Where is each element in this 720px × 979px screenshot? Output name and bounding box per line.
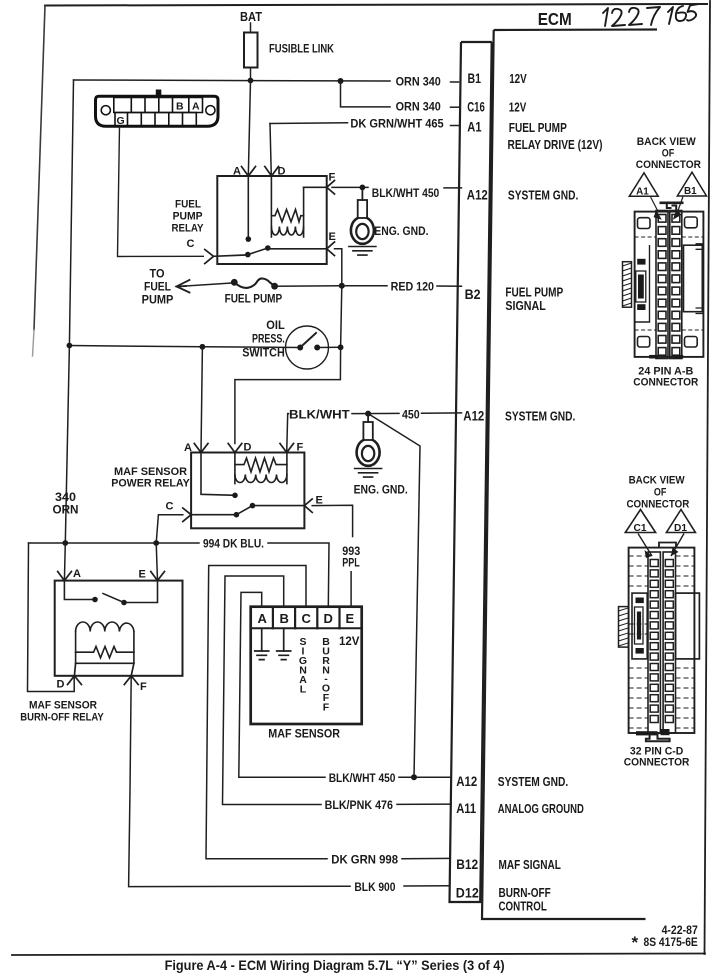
- svg-text:ECM: ECM: [538, 9, 572, 29]
- arrow to fuel pump: [177, 280, 190, 293]
- svg-text:POWER RELAY: POWER RELAY: [111, 478, 190, 490]
- svg-text:BAT: BAT: [240, 10, 262, 24]
- label RED 120: [391, 279, 435, 293]
- oil pressure switch S1: [286, 326, 329, 369]
- label BLK/WHT 450 (A12 top): [372, 186, 440, 200]
- wire A1 row down to terminal D: [270, 124, 271, 177]
- pin D12: [456, 885, 479, 901]
- node junction eng gnd 1: [360, 185, 366, 191]
- border frame left: [33, 6, 46, 357]
- svg-text:DK GRN 998: DK GRN 998: [331, 852, 398, 866]
- node junction 340 ORN / 994 line: [62, 540, 68, 546]
- MAF sensor internal ground B: [277, 628, 291, 659]
- terminal F (MAF power relay): [280, 442, 304, 454]
- svg-text:F: F: [140, 681, 147, 693]
- svg-text:D: D: [57, 679, 65, 691]
- svg-text:PUMP: PUMP: [173, 211, 203, 223]
- terminal E (MAF power relay): [304, 495, 322, 513]
- wire RED 120 row to B2: [275, 285, 462, 287]
- fuel pump inline connector symbol: [231, 278, 278, 289]
- svg-text:D12: D12: [456, 885, 479, 901]
- svg-text:A: A: [73, 568, 81, 580]
- wire MAF B to A11 row: [223, 576, 451, 805]
- pin A1: [467, 119, 481, 135]
- label ENG. GND. 2: [354, 483, 408, 497]
- svg-text:CONNECTOR: CONNECTOR: [633, 376, 698, 388]
- terminal F (fuel pump relay): [304, 172, 336, 195]
- svg-text:ENG. GND.: ENG. GND.: [354, 483, 408, 497]
- svg-text:A: A: [184, 442, 192, 454]
- terminal D (fuel pump relay): [265, 166, 286, 178]
- pin B1: [468, 70, 482, 86]
- handwritten number 1227 165: [603, 4, 699, 26]
- svg-text:RELAY DRIVE (12V): RELAY DRIVE (12V): [508, 137, 603, 152]
- signal BURN-OFF CONTROL: [499, 885, 551, 914]
- svg-text:SYSTEM GND.: SYSTEM GND.: [505, 409, 575, 424]
- wire BLK/WHT 450 row (A12 mid): [288, 412, 462, 415]
- signal 12V (B1): [509, 71, 527, 86]
- pin B12: [456, 856, 478, 872]
- svg-text:F: F: [297, 442, 304, 454]
- wire MAF A to A12 bottom row: [239, 592, 451, 777]
- label SIGNAL vertical: [299, 636, 307, 696]
- wire MAF relay A from OPS row: [201, 347, 202, 453]
- wire F to BLK/WHT 450 A12 row: [332, 186, 462, 189]
- node junction 340 ORN / OPS row: [67, 343, 73, 349]
- svg-text:E: E: [316, 495, 323, 507]
- svg-text:BLK/PNK 476: BLK/PNK 476: [325, 798, 394, 812]
- ECM title: [538, 9, 572, 29]
- label 993 PPL: [342, 546, 360, 570]
- relay K1 coil with resistor: [271, 176, 303, 237]
- svg-text:BLK/WHT 450: BLK/WHT 450: [372, 186, 440, 200]
- ECM box outline (top line and left/bottom edges): [482, 30, 657, 920]
- pin A12 (system gnd mid): [463, 408, 484, 424]
- svg-text:CONNECTOR: CONNECTOR: [624, 756, 690, 768]
- svg-text:B2: B2: [465, 286, 481, 302]
- wire fusible link to B1 row: [250, 68, 252, 81]
- svg-text:12V: 12V: [509, 71, 527, 86]
- label BLK 900: [354, 880, 395, 894]
- signal SYSTEM GND (A12 bottom): [498, 774, 568, 789]
- wire F up to BLK/WHT 450 row: [287, 414, 288, 453]
- border frame right: [705, 1, 711, 954]
- svg-text:ANALOG GROUND: ANALOG GROUND: [498, 801, 584, 816]
- svg-text:ORN 340: ORN 340: [396, 100, 441, 114]
- wire burn-off relay E drop: [156, 543, 157, 581]
- svg-text:OF: OF: [662, 148, 675, 160]
- svg-text:E: E: [139, 569, 146, 581]
- svg-text:CONNECTOR: CONNECTOR: [627, 499, 690, 511]
- svg-text:OIL: OIL: [266, 320, 285, 332]
- svg-text:PUMP: PUMP: [142, 295, 174, 307]
- doc number 8S 4175-6E with star: [632, 933, 699, 952]
- 32 pin C-D connector back view: [619, 475, 700, 769]
- wire DK GRN/WHT 465 row A1: [270, 123, 459, 126]
- svg-text:FUEL PUMP: FUEL PUMP: [509, 120, 567, 135]
- signal 12V (C16): [509, 100, 527, 115]
- terminal D (MAF power relay): [228, 442, 251, 454]
- node junction OPS right: [338, 344, 344, 350]
- svg-text:4-22-87: 4-22-87: [662, 925, 698, 937]
- MAF sensor box: [251, 607, 362, 724]
- wire MAF C signal to B12 row: [206, 566, 450, 859]
- signal SYSTEM GND (A12 mid): [505, 409, 575, 424]
- node junction C16 branch: [338, 78, 344, 84]
- svg-text:D1: D1: [674, 523, 687, 534]
- wire system ground bus diagonal down: [368, 414, 420, 778]
- svg-text:PRESS.: PRESS.: [252, 334, 285, 346]
- svg-text:MAF SENSOR: MAF SENSOR: [268, 727, 340, 741]
- wire ORN 340 row B1: [74, 80, 459, 82]
- svg-text:BACK VIEW: BACK VIEW: [637, 136, 697, 148]
- wire BAT to fusible link: [250, 23, 252, 33]
- terminal F (burn-off relay): [124, 663, 147, 693]
- MAF sensor terminal cells A B C D E: [251, 607, 362, 629]
- label FUSIBLE LINK: [269, 44, 335, 56]
- svg-text:ORN: ORN: [53, 505, 79, 517]
- wire C out to 994 line: [156, 515, 183, 543]
- BAT label: [240, 10, 262, 24]
- svg-text:FUEL PUMP: FUEL PUMP: [225, 294, 283, 306]
- svg-text:MAF SIGNAL: MAF SIGNAL: [499, 857, 561, 872]
- wire 994 DK BLU horizontal: [29, 543, 330, 607]
- svg-text:12V: 12V: [509, 100, 527, 115]
- label BLK/WHT (A12 mid): [289, 407, 350, 421]
- svg-text:BLK 900: BLK 900: [354, 880, 395, 894]
- svg-text:CONNECTOR: CONNECTOR: [636, 159, 701, 171]
- MAF sensor burn-off relay K3 box: [55, 581, 183, 676]
- relay K3 internal switch: [64, 581, 157, 606]
- wire oil pressure switch row: [69, 346, 340, 348]
- svg-text:A: A: [192, 101, 200, 113]
- pin A11: [456, 800, 476, 816]
- svg-text:B: B: [176, 101, 184, 113]
- svg-text:MAF SENSOR: MAF SENSOR: [114, 466, 187, 478]
- svg-text:RED 120: RED 120: [391, 279, 435, 293]
- wire C16 branch vertical: [341, 81, 459, 107]
- svg-text:D: D: [278, 166, 286, 178]
- label ORN 340 (B1): [396, 74, 441, 88]
- label BLK/PNK 476: [325, 798, 394, 812]
- label TO FUEL PUMP with arrow: [142, 269, 174, 307]
- svg-text:BACK VIEW: BACK VIEW: [629, 475, 686, 487]
- relay K2 internal switch: [201, 453, 304, 518]
- svg-text:B: B: [280, 611, 289, 626]
- signal SYSTEM GND (A12 top): [508, 188, 578, 203]
- wire E down to fuel pump / oil press switch junctions: [235, 249, 342, 444]
- label FUEL PUMP: [225, 294, 283, 306]
- label 340 ORN: [53, 492, 79, 517]
- svg-text:DK GRN/WHT 465: DK GRN/WHT 465: [350, 116, 444, 130]
- wire G terminal down to fuel pump relay C: [118, 126, 205, 256]
- node junction relay C / 994 line: [153, 540, 159, 546]
- terminal D (burn-off relay): [57, 663, 82, 690]
- svg-text:BLK/WHT 450: BLK/WHT 450: [329, 771, 396, 785]
- MAF sensor power relay K2 box: [191, 453, 304, 529]
- label MAF SENSOR BURN-OFF RELAY: [20, 700, 104, 724]
- node junction RED 120: [339, 283, 345, 289]
- cell letters: [258, 611, 355, 626]
- terminal A (MAF power relay): [184, 442, 208, 454]
- svg-text:FUEL: FUEL: [144, 282, 171, 294]
- svg-text:E: E: [329, 231, 336, 243]
- terminal E (fuel pump relay): [327, 231, 336, 256]
- signal FUEL PUMP SIGNAL: [505, 285, 563, 314]
- svg-text:993: 993: [342, 546, 360, 558]
- terminal C (fuel pump relay): [187, 238, 248, 264]
- doc number 4-22-87: [662, 925, 698, 937]
- pin A12 (system gnd top): [467, 187, 488, 203]
- svg-text:Figure A-4 - ECM Wiring Diagra: Figure A-4 - ECM Wiring Diagram 5.7L “Y”…: [165, 958, 505, 973]
- svg-text:994 DK BLU.: 994 DK BLU.: [203, 537, 264, 551]
- ECM pin strip rectangle: [450, 42, 492, 902]
- svg-text:E: E: [346, 611, 355, 626]
- ground eyelet ENG GND 1: [349, 190, 376, 255]
- node junction MAF relay A branch: [200, 344, 206, 350]
- svg-text:A12: A12: [463, 408, 484, 424]
- label ENG. GND. 1: [374, 224, 428, 238]
- svg-text:C1: C1: [634, 523, 647, 534]
- connector C100 bulkhead block: [96, 90, 219, 128]
- svg-text:SYSTEM GND.: SYSTEM GND.: [508, 188, 578, 203]
- node junction ground bus / A12 bottom row: [411, 774, 417, 780]
- svg-text:G: G: [117, 115, 125, 127]
- svg-text:C: C: [166, 501, 174, 513]
- label ORN 340 (C16): [396, 100, 441, 114]
- svg-text:CONTROL: CONTROL: [499, 899, 547, 914]
- node junction fusible link / B1 row: [248, 78, 254, 84]
- label DK GRN/WHT 465: [350, 116, 444, 130]
- svg-text:OF: OF: [654, 486, 667, 498]
- svg-text:L: L: [300, 684, 307, 696]
- label MAF SENSOR: [268, 727, 340, 741]
- svg-text:A1: A1: [467, 119, 481, 135]
- svg-text:F: F: [329, 172, 336, 184]
- svg-text:340: 340: [55, 492, 76, 504]
- svg-text:ENG. GND.: ENG. GND.: [374, 224, 428, 238]
- wire F down to BLK 900 row: [129, 677, 450, 887]
- wire burn-off relay A drop: [63, 543, 66, 581]
- relay K3 coil with resistor: [76, 622, 134, 663]
- terminal E (burn-off relay): [139, 569, 165, 581]
- svg-text:450: 450: [402, 407, 420, 421]
- wire arrow to pump symbol: [186, 283, 231, 286]
- svg-text:SYSTEM GND.: SYSTEM GND.: [498, 774, 568, 789]
- svg-text:8S 4175-6E: 8S 4175-6E: [644, 937, 699, 949]
- label FUEL PUMP RELAY: [172, 199, 205, 235]
- svg-text:A12: A12: [456, 773, 477, 789]
- svg-text:B1: B1: [468, 70, 482, 86]
- svg-text:B1: B1: [684, 186, 697, 197]
- svg-text:C: C: [302, 611, 312, 626]
- svg-text:F: F: [323, 702, 330, 714]
- terminal A (burn-off relay): [58, 568, 81, 581]
- ground eyelet ENG GND 2: [355, 414, 382, 478]
- svg-text:MAF SENSOR: MAF SENSOR: [29, 700, 97, 712]
- svg-text:A: A: [233, 166, 241, 178]
- svg-text:*: *: [632, 933, 639, 952]
- label BLK/WHT 450 (A12 bottom): [329, 771, 396, 785]
- svg-text:FUEL: FUEL: [175, 199, 201, 211]
- caption: [165, 958, 505, 973]
- svg-text:ORN 340: ORN 340: [396, 74, 441, 88]
- label BURN-OFF vertical: [322, 636, 330, 714]
- svg-text:D: D: [244, 442, 252, 454]
- svg-text:FUSIBLE LINK: FUSIBLE LINK: [269, 44, 335, 56]
- relay K1 internal switch: [245, 176, 327, 257]
- svg-text:A: A: [258, 611, 268, 626]
- wire E to 993 PPL to MAF sensor E: [312, 505, 352, 607]
- node junction eng gnd 2: [365, 411, 371, 417]
- wire burn-off relay D loop to 994 line: [28, 543, 75, 692]
- border frame bottom: [12, 954, 705, 956]
- label OIL PRESS. SWITCH: [242, 320, 285, 360]
- wire 340 ORN left vertical: [65, 80, 73, 543]
- svg-text:C: C: [187, 238, 195, 250]
- pin A12 (system gnd bottom): [456, 773, 477, 789]
- svg-text:SWITCH: SWITCH: [242, 348, 285, 360]
- svg-text:TO: TO: [150, 269, 165, 281]
- svg-text:B12: B12: [456, 856, 478, 872]
- svg-text:12V: 12V: [339, 636, 360, 648]
- svg-text:BLK/WHT: BLK/WHT: [289, 407, 350, 421]
- MAF sensor internal ground A: [255, 628, 269, 659]
- signal FUEL PUMP RELAY DRIVE (12V): [508, 120, 603, 152]
- svg-text:C16: C16: [467, 99, 485, 115]
- relay K2 coil with resistor: [235, 453, 287, 484]
- svg-text:A1: A1: [636, 186, 649, 197]
- svg-text:SIGNAL: SIGNAL: [505, 298, 545, 313]
- svg-text:PPL: PPL: [342, 558, 360, 570]
- label 12V (MAF sensor E): [339, 636, 360, 648]
- border frame top: [45, 4, 707, 6]
- terminal C (MAF power relay): [166, 501, 237, 522]
- svg-text:RELAY: RELAY: [172, 223, 205, 235]
- svg-text:A11: A11: [456, 800, 476, 816]
- wire BAT feed to terminal A: [248, 81, 250, 177]
- label 450 (A12 mid): [402, 407, 420, 421]
- svg-text:BURN-OFF RELAY: BURN-OFF RELAY: [20, 712, 104, 724]
- signal ANALOG GROUND: [498, 801, 584, 816]
- 24 pin A-B connector back view: [623, 136, 707, 388]
- signal MAF SIGNAL: [499, 857, 561, 872]
- label DK GRN 998: [331, 852, 398, 866]
- svg-text:A12: A12: [467, 187, 488, 203]
- pin C16: [467, 99, 485, 115]
- fuel pump relay K1 box: [217, 176, 326, 264]
- terminal A (fuel pump relay): [233, 166, 256, 178]
- fusible link F1: [244, 33, 258, 68]
- label 994 DK BLU.: [203, 537, 264, 551]
- label MAF SENSOR POWER RELAY: [111, 466, 190, 490]
- pin B2: [465, 286, 481, 302]
- svg-text:D: D: [324, 611, 333, 626]
